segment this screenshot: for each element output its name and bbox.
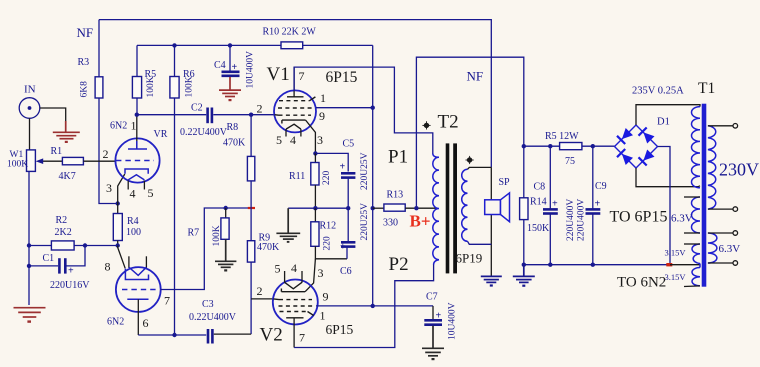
wire R12 top lead	[314, 208, 316, 222]
T1 6.3V winding left	[692, 197, 701, 233]
capacitor C3	[207, 329, 210, 344]
pentode V1 6P15	[274, 67, 316, 153]
resistor R3	[95, 77, 103, 98]
wire V2 cathode pin3	[305, 259, 315, 292]
bridge rectifier D1	[615, 125, 658, 168]
wire C4 top lead	[229, 45, 231, 71]
svg-text:R4: R4	[127, 216, 139, 227]
svg-text:7: 7	[299, 331, 305, 345]
svg-text:2K2: 2K2	[55, 227, 72, 238]
svg-text:10U400V: 10U400V	[245, 51, 255, 89]
resistor R13	[384, 204, 405, 211]
svg-text:100K: 100K	[185, 76, 195, 97]
wire plate of lower 6N2 to R6/C3	[138, 334, 206, 336]
svg-text:1: 1	[131, 119, 137, 133]
wire R7 top lead	[225, 208, 227, 218]
ground bottom left (dark red)	[14, 308, 46, 317]
svg-text:220U400V: 220U400V	[566, 199, 576, 241]
wire R2 right lead to R4 bottom node	[74, 245, 118, 247]
wire B+ front rail	[137, 44, 373, 46]
svg-text:10U400V: 10U400V	[447, 302, 457, 340]
svg-text:3.15V: 3.15V	[665, 248, 687, 258]
svg-text:7: 7	[299, 69, 305, 83]
svg-text:100K: 100K	[146, 76, 156, 97]
T1 3.15V winding lower	[692, 268, 700, 286]
svg-text:220U25V: 220U25V	[360, 152, 370, 190]
svg-text:3.15V: 3.15V	[665, 272, 687, 282]
svg-text:P2: P2	[389, 254, 409, 275]
svg-text:9: 9	[323, 290, 329, 304]
node red tick at R8/R9 junction	[248, 207, 255, 209]
potentiometer W1	[27, 150, 36, 172]
resistor R5 100K	[132, 77, 141, 99]
wire R6 bottom long lead	[174, 98, 176, 335]
node junction dot V1 cathode	[313, 151, 317, 155]
transformer T2 secondary winding	[462, 169, 468, 241]
wire 230V top terminal	[708, 125, 733, 127]
svg-text:235V 0.25A: 235V 0.25A	[632, 86, 684, 97]
svg-text:C5: C5	[343, 139, 355, 150]
svg-text:1: 1	[320, 91, 326, 105]
svg-text:100K: 100K	[7, 160, 28, 170]
svg-text:6P15: 6P15	[326, 69, 358, 86]
svg-text:TO 6N2: TO 6N2	[617, 275, 666, 291]
wire bridge top to T1	[636, 105, 700, 125]
wire W1 bottom rail to ground	[28, 171, 30, 305]
svg-text:+: +	[340, 162, 346, 173]
svg-text:6K8: 6K8	[80, 81, 90, 98]
wire 230V bottom terminal	[708, 208, 733, 210]
svg-text:IN: IN	[24, 84, 36, 96]
svg-text:+: +	[68, 266, 74, 277]
node junction dot W1/C1	[27, 264, 31, 268]
svg-text:C7: C7	[426, 292, 438, 303]
phase dot secondary	[467, 157, 472, 162]
capacitor C8	[543, 208, 558, 211]
svg-text:9: 9	[319, 109, 325, 123]
svg-text:NF: NF	[467, 69, 484, 84]
wire IN jack to W1	[29, 118, 31, 150]
node junction dot R6 top	[172, 43, 176, 47]
capacitor C2	[206, 108, 209, 124]
node junction dot R6 bottom	[172, 333, 176, 337]
svg-text:W1: W1	[10, 150, 24, 160]
svg-text:R1: R1	[51, 146, 63, 157]
node junction dot R2/C1 right	[83, 243, 87, 247]
svg-text:8: 8	[105, 260, 111, 274]
svg-text:4: 4	[290, 133, 296, 147]
svg-text:3: 3	[317, 133, 323, 147]
node junction dot screen line top	[371, 106, 375, 110]
wire 6.3V right top terminal	[708, 232, 733, 234]
ground mid cathode node	[276, 208, 300, 239]
svg-text:100: 100	[126, 227, 141, 238]
wire R14 bottom lead	[523, 220, 525, 265]
transformer T2 primary winding	[433, 157, 439, 259]
wire IN jack to ground	[40, 108, 66, 123]
wire mid cathode node	[288, 207, 348, 209]
wire R4 top lead	[117, 204, 119, 215]
resistor R11	[311, 163, 319, 186]
wire cathode node to C5	[315, 153, 348, 171]
svg-text:1: 1	[320, 309, 326, 323]
wire C9 leads	[592, 146, 594, 208]
resistor R2	[51, 241, 74, 250]
node junction dot C8 top	[548, 144, 552, 148]
node junction dot V1 grid / R8	[249, 113, 253, 117]
svg-text:T2: T2	[438, 112, 459, 133]
svg-text:C6: C6	[340, 266, 352, 277]
svg-text:R12: R12	[320, 221, 337, 232]
wire R3 bottom to cathode node	[99, 98, 118, 204]
svg-text:6P15: 6P15	[326, 322, 354, 337]
svg-text:R5 12W: R5 12W	[545, 131, 579, 142]
wire R5 bottom lead	[136, 98, 138, 115]
T1 primary 230V winding	[708, 126, 716, 209]
wire R11 top lead	[314, 153, 316, 162]
svg-text:2: 2	[103, 147, 109, 161]
svg-text:+: +	[436, 311, 442, 322]
node junction dot R4 bottom	[116, 243, 120, 247]
resistor R6 100K	[170, 77, 179, 99]
wire 0V rail	[524, 264, 668, 266]
wire V1 plate to transformer P1	[294, 67, 433, 154]
wire R13 right lead to B+	[405, 207, 437, 209]
svg-text:3: 3	[106, 181, 112, 195]
wire bridge right to heater tap	[658, 147, 671, 265]
svg-text:+: +	[232, 62, 238, 73]
svg-text:P1: P1	[388, 147, 408, 168]
wire C6 top lead	[347, 208, 349, 242]
svg-text:330: 330	[383, 218, 398, 229]
ground below speaker	[481, 276, 502, 282]
wire R8 top lead	[250, 115, 252, 157]
node junction dot C8 bottom	[548, 263, 552, 267]
resistor R14	[520, 198, 528, 220]
wire R1 to grid pin 2	[83, 160, 116, 162]
wire R2 left lead	[29, 245, 51, 247]
pentode V2 6P15	[273, 271, 318, 348]
svg-text:4: 4	[291, 261, 297, 275]
wire supply node to R5	[524, 145, 560, 147]
ground below C7 (black)	[422, 326, 444, 356]
wire C1 left lead	[29, 265, 58, 267]
wire pin3 of VR down to node	[118, 174, 125, 204]
svg-text:NF: NF	[77, 25, 94, 40]
wire R4 bottom lead	[117, 241, 119, 246]
wire V2 plate to transformer P2	[294, 264, 434, 348]
node junction dot R7 top	[224, 206, 228, 210]
svg-text:0.22U400V: 0.22U400V	[189, 312, 237, 323]
svg-text:4K7: 4K7	[59, 171, 76, 182]
ground below C4 (dark red)	[219, 77, 241, 97]
wire speaker feed	[490, 167, 492, 276]
wire R5 top lead	[136, 45, 138, 76]
wire bottom cathode node V2	[315, 246, 347, 258]
capacitor C1	[58, 258, 61, 273]
svg-text:+: +	[552, 199, 558, 210]
T1 6.3V winding right	[708, 233, 717, 263]
ground at IN jack (dark red)	[53, 121, 80, 139]
node NF top feedback wire	[99, 20, 491, 168]
svg-text:6: 6	[143, 316, 149, 330]
node junction dot screen line bottom	[371, 304, 375, 308]
wire bridge bottom to T1	[636, 168, 700, 187]
transformer T2 core	[446, 143, 450, 273]
svg-text:2: 2	[257, 102, 263, 116]
wire lower 6N2 grid to divider	[161, 208, 248, 290]
wire V2 screen pin9 to screen line and C7	[316, 305, 433, 307]
svg-text:R2: R2	[56, 215, 68, 226]
node junction dot VR plate / C2	[135, 113, 139, 117]
resistor R12	[311, 222, 319, 247]
ground below R7 (black)	[215, 239, 236, 267]
svg-text:R10 22K 2W: R10 22K 2W	[263, 27, 317, 38]
wire plate node to C2	[137, 114, 206, 116]
wire C3 right to V2 grid	[214, 333, 251, 335]
node junction dot mid R11	[313, 206, 317, 210]
wire V1 screen pin9 to screen line	[316, 107, 373, 109]
svg-text:220U16V: 220U16V	[50, 280, 90, 291]
svg-text:3: 3	[318, 266, 324, 280]
node red junction dot 0V	[666, 263, 672, 266]
svg-text:220: 220	[322, 171, 332, 186]
node junction dot C9 bottom	[591, 263, 595, 267]
node junction dot R14 top	[522, 144, 526, 148]
svg-text:2: 2	[257, 284, 263, 298]
capacitor C6	[341, 241, 355, 244]
transformer T1 core	[702, 104, 707, 287]
svg-text:6.3V: 6.3V	[719, 243, 741, 255]
svg-text:VR: VR	[154, 129, 168, 140]
T1 3.15V winding upper	[692, 244, 700, 264]
svg-text:220U25V: 220U25V	[360, 203, 370, 241]
svg-text:470K: 470K	[223, 138, 246, 149]
resistor R5 12W	[560, 143, 582, 150]
capacitor C7	[432, 306, 434, 320]
wire R8 bottom to R9 top	[250, 181, 252, 241]
T1 secondary 235V winding	[692, 107, 701, 188]
wire C2 to V1 grid	[213, 114, 274, 116]
wire C8 leads	[549, 146, 551, 208]
node junction dot C4 top	[228, 43, 232, 47]
triode VR (upper 6N2)	[115, 115, 159, 190]
capacitor C5	[341, 172, 355, 175]
svg-text:R3: R3	[78, 57, 90, 68]
svg-text:C1: C1	[43, 253, 55, 264]
svg-text:100K: 100K	[212, 225, 222, 246]
wire R13 left lead	[373, 207, 384, 209]
resistor R7	[221, 218, 229, 239]
node junction dot W1/R2	[27, 243, 31, 247]
svg-text:5: 5	[148, 186, 154, 200]
svg-text:470K: 470K	[257, 242, 280, 253]
wire R9 bottom to V2 grid node	[250, 262, 252, 334]
resistor R8	[247, 156, 254, 181]
svg-text:7: 7	[164, 294, 170, 308]
node junction dot 0V rail left	[522, 263, 526, 267]
triode lower 6N2	[116, 256, 161, 335]
svg-text:D1: D1	[657, 117, 670, 128]
wire heater centre tap	[670, 264, 700, 266]
svg-text:6P19: 6P19	[456, 251, 483, 266]
svg-text:+: +	[340, 242, 346, 253]
svg-text:R14: R14	[530, 197, 547, 208]
svg-text:R11: R11	[289, 171, 305, 182]
wire B+ riser over transformer	[416, 57, 523, 208]
svg-text:+: +	[595, 199, 601, 210]
svg-text:6N2: 6N2	[107, 317, 124, 328]
node junction dot C9 top	[591, 144, 595, 148]
wire 6.3V right bottom terminal	[708, 262, 733, 264]
svg-text:5: 5	[276, 133, 282, 147]
ground below R14	[513, 265, 535, 283]
node junction dot R13 left	[371, 206, 375, 210]
svg-text:C2: C2	[191, 103, 203, 114]
phase dot primary	[424, 123, 429, 128]
speaker SP	[485, 193, 510, 222]
connector IN jack	[19, 98, 40, 119]
resistor R4	[113, 214, 122, 241]
wire pin 8 diagonal of lower 6N2	[118, 246, 126, 269]
svg-text:75: 75	[565, 156, 575, 167]
wire C5 bottom lead	[347, 179, 349, 209]
wire R6 top lead	[174, 45, 176, 76]
svg-text:5: 5	[275, 262, 281, 276]
svg-text:220U400V: 220U400V	[577, 199, 587, 241]
svg-text:C9: C9	[595, 181, 607, 192]
svg-text:R8: R8	[227, 122, 239, 133]
capacitor C9	[586, 208, 601, 211]
node junction dot mid C5	[346, 206, 350, 210]
node junction dot cathode of VR	[116, 201, 120, 205]
wire T2 secondary bottom	[468, 241, 492, 244]
svg-text:TO 6P15: TO 6P15	[610, 209, 668, 226]
svg-text:4: 4	[130, 187, 136, 201]
svg-text:230V: 230V	[719, 160, 759, 180]
wire T2 secondary top to NF/speaker	[468, 167, 492, 169]
svg-text:6N2: 6N2	[110, 121, 127, 132]
svg-text:C8: C8	[534, 182, 546, 193]
resistor R1	[62, 157, 83, 164]
svg-text:150K: 150K	[527, 223, 550, 234]
svg-text:V2: V2	[260, 325, 283, 346]
svg-text:220: 220	[323, 236, 333, 251]
wire C1 right lead	[67, 246, 86, 266]
resistor R9	[247, 241, 254, 262]
svg-text:SP: SP	[499, 177, 511, 188]
node junction dot B+	[414, 206, 418, 210]
wire screen line vertical	[372, 45, 374, 306]
svg-text:T1: T1	[698, 80, 715, 97]
svg-text:C4: C4	[214, 60, 226, 71]
wire R11 bottom lead	[314, 185, 316, 208]
svg-text:0.22U400V: 0.22U400V	[180, 127, 228, 138]
resistor R10	[281, 42, 303, 49]
capacitor C4	[222, 71, 240, 74]
wire R3 top lead	[98, 20, 100, 77]
wiper arrow of W1	[39, 160, 62, 162]
svg-text:R13: R13	[387, 190, 404, 201]
svg-text:6.3V: 6.3V	[671, 213, 693, 225]
svg-text:B+: B+	[410, 212, 431, 231]
wire R5 right to bridge	[582, 145, 615, 147]
svg-text:C3: C3	[202, 299, 214, 310]
wire R14 top lead	[523, 146, 525, 198]
svg-text:R7: R7	[188, 228, 200, 239]
svg-text:V1: V1	[267, 64, 290, 85]
